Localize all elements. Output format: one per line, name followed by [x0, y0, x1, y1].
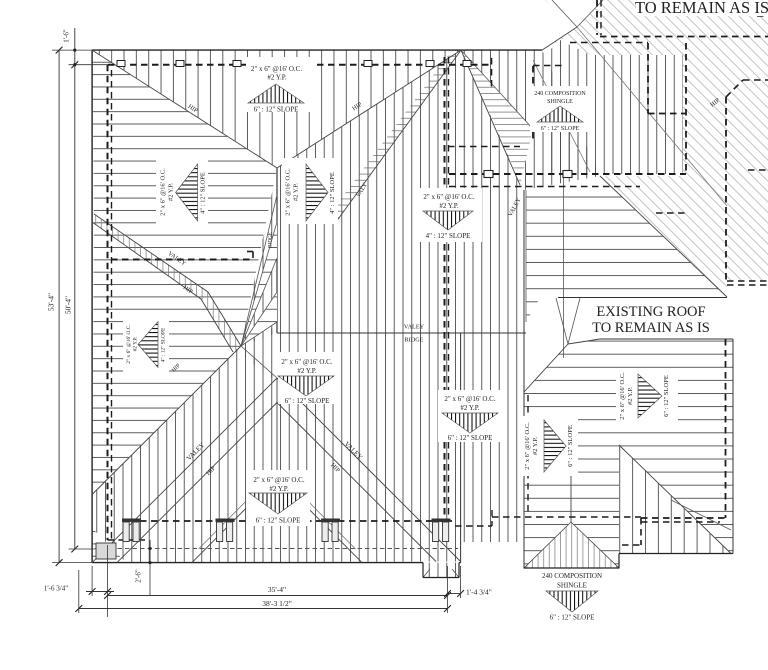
- svg-text:TO REMAIN AS IS: TO REMAIN AS IS: [635, 0, 768, 17]
- roof plane: main top plane (vertical rafters): [92, 50, 461, 168]
- wing peak to ridge: [568, 339, 600, 344]
- svg-text:6" : 12" SLOPE: 6" : 12" SLOPE: [448, 434, 493, 442]
- wing peak wedge a: [556, 298, 568, 344]
- svg-text:2" x 6" @16' O.C.: 2" x 6" @16' O.C.: [281, 358, 332, 366]
- valley-ridge horizontal line: [277, 332, 526, 334]
- existing peak left edge: [542, 27, 577, 50]
- pier pair D: [122, 519, 141, 522]
- wall dashed: existing interior rect: [647, 43, 649, 114]
- svg-text:4" : 12" SLOPE: 4" : 12" SLOPE: [161, 327, 167, 362]
- white notch above existing peak: [552, 0, 603, 27]
- wall dashed: long horizontal y186: [449, 186, 640, 188]
- svg-text:240 COMPOSITION: 240 COMPOSITION: [542, 572, 602, 580]
- corner wedge below valley V1 (horizontal): [92, 528, 126, 563]
- roof plane: wing north plane right part (horizontal rafters): [619, 339, 733, 554]
- existing peak notch right: [577, 0, 603, 27]
- valley band upper-left line1: [94, 214, 241, 346]
- wing valley to peak: [524, 344, 568, 392]
- svg-text:2" x 6" @16' O.C.: 2" x 6" @16' O.C.: [524, 422, 531, 470]
- svg-text:RIDGE: RIDGE: [268, 232, 274, 248]
- wall dashed: double horizontal y281: [727, 280, 768, 282]
- fan ladder wedge right: [461, 50, 533, 185]
- dimension lines and labels: [58, 50, 60, 563]
- svg-text:2" x 6" @16' O.C.: 2" x 6" @16' O.C.: [251, 65, 302, 73]
- bowtie herringbone wedge 1 (horizontal): [241, 222, 277, 346]
- pier pair C: [432, 519, 451, 522]
- svg-text:4" : 12" SLOPE: 4" : 12" SLOPE: [426, 232, 471, 240]
- svg-text:6" : 12" SLOPE: 6" : 12" SLOPE: [285, 397, 330, 405]
- svg-text:2'-6": 2'-6": [135, 569, 143, 583]
- wing right edge: [732, 339, 734, 554]
- svg-text:53'-4": 53'-4": [47, 293, 56, 311]
- wall dashed: vertical x726 upper: [725, 97, 727, 283]
- existing peak notch left: [552, 0, 577, 27]
- fan line f3: [461, 50, 520, 185]
- wing eave step: [618, 554, 620, 569]
- svg-text:2" x 6" @16' O.C.: 2" x 6" @16' O.C.: [160, 168, 167, 216]
- band between hip and valley bottom-left (vertical rafters): [92, 346, 277, 563]
- small diamond below valley-ridge junction (vertical rafters): [235, 325, 277, 382]
- svg-text:6" : 12" SLOPE: 6" : 12" SLOPE: [567, 425, 574, 467]
- svg-text:50'-4": 50'-4": [64, 296, 73, 314]
- connector right edge: [523, 190, 525, 392]
- wall dashed: hidden eave line: [95, 548, 458, 550]
- bay roof bump at south eave (vertical rafters): [423, 563, 459, 578]
- bowtie herringbone wedge 2 (horizontal): [241, 292, 277, 346]
- svg-text:#2 Y.P.: #2 Y.P.: [627, 387, 634, 405]
- hip: HIP-1 bottom-left: [92, 346, 241, 495]
- svg-text:240 COMPOSITION: 240 COMPOSITION: [534, 91, 586, 97]
- edge: main right: [460, 333, 462, 563]
- roof plane: existing roof diagonal hatch (top right): [542, 0, 768, 297]
- eave: top: [92, 49, 542, 51]
- wing hypotenuse: [619, 445, 731, 554]
- ridge: central vertical: [276, 168, 278, 333]
- svg-text:SHINGLE: SHINGLE: [557, 582, 587, 590]
- svg-text:#2 Y.P.: #2 Y.P.: [439, 202, 459, 210]
- label: 240 composition shingle top: [530, 86, 588, 132]
- wall dashed: left bottom jog: [108, 539, 146, 541]
- wing eave bottom right: [619, 553, 733, 555]
- ridge: below apex: [276, 378, 278, 477]
- fan line f3b: [461, 50, 533, 129]
- slope indicator: top plane: [246, 57, 314, 112]
- wall dashed: long horizontal y174: [449, 173, 686, 175]
- svg-text:4" : 12" SLOPE: 4" : 12" SLOPE: [200, 172, 207, 214]
- wing bottom ridge vertical: [570, 448, 572, 522]
- wall dashed: existing house top: [596, 0, 598, 35]
- svg-text:4" : 12" SLOPE: 4" : 12" SLOPE: [329, 172, 336, 214]
- svg-text:2" x 6" @16' O.C.: 2" x 6" @16' O.C.: [253, 476, 304, 484]
- wall openings on y174 wall: [484, 171, 493, 178]
- wall dashed: far right corner: [756, 0, 758, 16]
- pier pair B: [321, 519, 340, 522]
- wing left edge: [523, 392, 525, 568]
- eave: bottom main: [92, 562, 423, 564]
- svg-text:SHINGLE: SHINGLE: [547, 99, 573, 105]
- existing ridge band top line: [558, 297, 727, 299]
- svg-text:RIDGE: RIDGE: [405, 337, 424, 344]
- hip: lambda2 left: [192, 477, 277, 563]
- svg-text:1'-4 3/4": 1'-4 3/4": [466, 588, 492, 597]
- svg-text:#2 Y.P.: #2 Y.P.: [297, 367, 317, 375]
- svg-text:2" x 6" @16' O.C.: 2" x 6" @16' O.C.: [285, 168, 292, 216]
- wall dashed: stub at y146: [448, 146, 520, 148]
- roof plane: central/connector plane (vertical rafters): [277, 50, 600, 561]
- bowtie fan c: [241, 292, 277, 346]
- text: TO REMAIN AS IS (top): [636, 0, 768, 16]
- hip: top-left: [92, 50, 277, 168]
- connector vertical band upper right: [545, 40, 683, 174]
- ladder band along f2 valley: [328, 50, 461, 222]
- svg-text:#2 Y.P.: #2 Y.P.: [269, 485, 289, 493]
- roof plane: existing south plane (horizontal rafters): [526, 188, 728, 322]
- bowtie link to apex: [241, 346, 277, 378]
- wall dashed: chamfer corner: [726, 80, 743, 97]
- wall dashed: connector left vertical: [532, 66, 534, 143]
- valley: V1: [92, 378, 277, 563]
- svg-text:2" x 6" @16' O.C.: 2" x 6" @16' O.C.: [126, 324, 132, 363]
- wall dashed: center vertical pair: [444, 57, 446, 518]
- svg-text:1'-6": 1'-6": [63, 29, 71, 43]
- wing inner diagonal: [671, 500, 731, 530]
- valley: V2: [277, 378, 461, 562]
- wall dashed: bottom center long: [140, 520, 452, 522]
- wall dashed: upper right vertical: [491, 58, 493, 90]
- svg-text:2" x 6" @16' O.C.: 2" x 6" @16' O.C.: [619, 372, 626, 420]
- roof plane: south plane (vertical rafters): [92, 378, 461, 563]
- bay corner diagonals: [423, 569, 430, 578]
- svg-text:EXISTING ROOF: EXISTING ROOF: [596, 304, 705, 320]
- fan line f2 valley: [336, 50, 461, 222]
- wall dashed: corner x641: [640, 518, 642, 545]
- wing peak wedge b: [568, 298, 580, 344]
- eave: left: [91, 50, 93, 563]
- svg-text:2" x 6" @16' O.C.: 2" x 6" @16' O.C.: [423, 193, 474, 201]
- wall dashed: vertical x725 lower: [725, 339, 727, 518]
- slope indicator: west plane lower: [123, 318, 169, 372]
- valley band upper-left ladder: [92, 214, 241, 352]
- slope indicator: west plane upper: [156, 158, 208, 224]
- valley: V2b: [277, 403, 436, 562]
- roof plane: wing bottom hip triangle (vertical rafters): [524, 522, 619, 568]
- slope indicator: central below junction: [278, 352, 340, 404]
- slope indicator: central plane upper: [282, 158, 338, 224]
- slope indicator: south plane: [246, 470, 310, 526]
- existing valley steep: [533, 60, 590, 172]
- bowtie fan a: [241, 195, 277, 346]
- svg-text:TO REMAIN AS IS: TO REMAIN AS IS: [592, 320, 710, 336]
- wall dashed: top horizontal: [108, 64, 491, 66]
- existing hip 45: [600, 176, 727, 297]
- existing hip from peak LA: [577, 27, 727, 206]
- white band behind EXISTING ROOF text: [556, 299, 732, 339]
- svg-text:#2 Y.P.: #2 Y.P.: [532, 437, 539, 455]
- svg-text:35'-4": 35'-4": [268, 585, 286, 594]
- slope indicator: connector 4-12: [420, 188, 482, 242]
- roof plane: wing east triangle (vertical rafters): [619, 445, 731, 554]
- svg-text:6" : 12" SLOPE: 6" : 12" SLOPE: [256, 517, 301, 525]
- roof plane: west plane upper (horizontal rafters): [92, 50, 277, 346]
- valley band upper-left line2: [92, 222, 233, 352]
- wall dashed: interior horizontal: [111, 259, 253, 261]
- wall line top horizontal solid: [69, 64, 108, 66]
- svg-text:6" : 12" SLOPE: 6" : 12" SLOPE: [663, 375, 670, 417]
- pier pair A: [216, 519, 235, 522]
- svg-text:1'-6 3/4": 1'-6 3/4": [44, 585, 68, 593]
- existing south plane left edge: [525, 190, 527, 322]
- bay outline: [422, 563, 424, 578]
- slope indicator: wing north: [520, 416, 578, 476]
- wall dashed: left vertical a: [107, 65, 109, 540]
- wall dashed: bottom right of main: [455, 525, 492, 527]
- slope indicator: wing east: [616, 370, 678, 422]
- svg-text:38'-3 1/2": 38'-3 1/2": [262, 599, 292, 608]
- existing wall vertical solid: [563, 176, 565, 358]
- bowtie fan b: [241, 222, 277, 346]
- svg-text:2" x 6" @16' O.C.: 2" x 6" @16' O.C.: [444, 395, 495, 403]
- svg-text:#2 Y.P.: #2 Y.P.: [267, 74, 287, 82]
- wall dashed: right edge y170: [748, 169, 768, 171]
- wing ridge line: [600, 338, 733, 340]
- roof plane: wing north plane left part (horizontal rafters): [524, 339, 619, 568]
- valley: V1b: [117, 403, 277, 563]
- wedge right of ridge (vertical rafters): [241, 168, 277, 346]
- corner gray pier: [96, 543, 116, 559]
- wall openings on top wall: [117, 61, 125, 67]
- svg-text:#2 Y.P.: #2 Y.P.: [168, 183, 175, 201]
- fan line f1: [277, 50, 461, 168]
- svg-text:6" : 12" SLOPE: 6" : 12" SLOPE: [541, 126, 580, 132]
- wing eave bottom left: [524, 567, 619, 569]
- svg-text:#2 Y.P.: #2 Y.P.: [293, 183, 300, 201]
- svg-text:6" : 12" SLOPE: 6" : 12" SLOPE: [254, 106, 299, 114]
- wall dashed: horizontal y518 wing: [641, 517, 726, 519]
- slope indicator: lower connector: [438, 390, 504, 442]
- svg-text:6" : 12" SLOPE: 6" : 12" SLOPE: [550, 614, 595, 622]
- svg-text:#2 Y.P.: #2 Y.P.: [133, 337, 139, 352]
- hip: lambda2 right: [277, 477, 362, 563]
- roof plane: west plane lower (horizontal rafters): [92, 214, 241, 495]
- svg-text:#2 Y.P.: #2 Y.P.: [460, 404, 480, 412]
- svg-text:VALEY: VALEY: [404, 324, 425, 331]
